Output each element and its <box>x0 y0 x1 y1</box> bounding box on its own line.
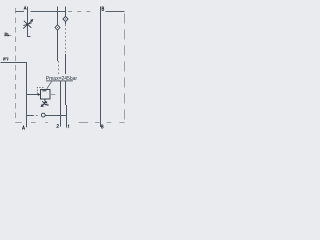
port label 1 <box>67 125 70 128</box>
top manifold dashed continuation <box>68 11 91 13</box>
wire: gauge line to port 1 line <box>45 115 66 117</box>
port label PL (upper left) <box>5 33 9 35</box>
relief valve RV1 body <box>41 90 51 100</box>
wire below diamond V2 <box>65 21 67 24</box>
relief valve RV1: pressure label background <box>46 74 75 81</box>
wire: left supply line with corner, runs to bottom port A <box>1 63 27 128</box>
enclosure dashed boundary right <box>124 12 126 123</box>
pilot dashed box of relief valve <box>37 87 43 94</box>
background <box>0 0 130 139</box>
wire below diamond V1 <box>57 30 59 61</box>
enclosure dashed boundary bottom <box>16 122 125 124</box>
drain dotted segment of line 2 <box>65 25 67 55</box>
wire: line 2 lower solid run (upper part) <box>65 54 67 105</box>
port label B bottom <box>102 125 104 128</box>
wire: line 2 lower solid run to port 1 <box>66 105 68 128</box>
check valve V1 (lower diamond) <box>55 25 60 30</box>
wire: port B through-line <box>100 7 102 128</box>
port label 2 <box>57 125 59 128</box>
enclosure dashed boundary left <box>15 8 17 123</box>
check line 1 (left of pair): solid top <box>57 7 59 26</box>
wire: port A drop line <box>28 7 31 37</box>
drain dotted segment of line 1 <box>58 61 60 75</box>
port label A bottom <box>22 126 25 130</box>
port B top label <box>102 7 104 11</box>
port A top label <box>24 7 26 10</box>
valve outlet stub right <box>50 94 55 96</box>
wire: stub from left line to gauge <box>27 115 34 117</box>
top manifold line <box>16 11 125 13</box>
wire: inlet branch to relief valve <box>27 94 39 96</box>
wire: line 1 lower solid run to port 2 <box>60 81 62 127</box>
inlet arrowhead into valve <box>38 93 41 96</box>
leader line from valve to label <box>47 81 52 89</box>
check valve V2 (upper diamond) <box>63 16 68 21</box>
wire: short dash before gauge <box>36 115 38 117</box>
port label PS (left, above supply line) <box>3 57 8 60</box>
valve internal flow bar <box>42 90 46 91</box>
valve spring and adjustment arrow <box>41 99 48 106</box>
check line 2 (right of pair): solid top <box>65 7 67 17</box>
orifice X symbol on port A line <box>23 20 33 29</box>
gauge port circle M <box>41 113 45 117</box>
